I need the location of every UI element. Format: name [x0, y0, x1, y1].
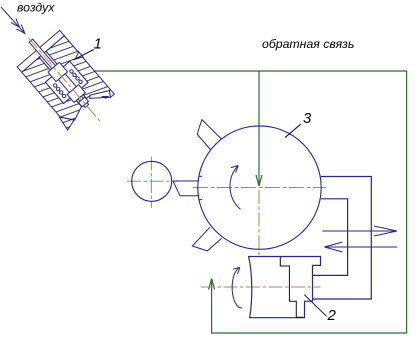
flow arrow right: [322, 226, 397, 236]
valve body upper hatched plate: [46, 36, 110, 106]
centerline horizontal of valve 2: [201, 286, 321, 288]
spool rod back: [78, 96, 89, 107]
rotor 3: [198, 126, 321, 249]
hub stubs on rotor: [198, 175, 202, 177]
valve body lower hatched plate: [22, 57, 85, 125]
spool rod front: [29, 39, 55, 69]
node inlet air arrow: [1, 7, 25, 33]
leader for label 2: [304, 295, 326, 317]
foot wedge: [58, 111, 77, 130]
leader for label 3: [285, 124, 301, 138]
green arrowhead down: [256, 175, 262, 186]
front cover plate: [17, 30, 64, 72]
rotation arrow at valve 2: [232, 267, 242, 308]
channel end arrow: [101, 92, 110, 100]
svg-text:обратная связь: обратная связь: [262, 37, 354, 51]
centerline horizontal of rotor 3: [193, 187, 326, 189]
leader for label 1: [73, 50, 93, 60]
rod end block: [78, 97, 88, 107]
bore back: [72, 90, 86, 104]
spring chamber: [45, 61, 88, 103]
spool stem: [58, 74, 76, 93]
valve 2 inner plunger (black): [280, 257, 303, 317]
rotation arrow inside rotor: [230, 166, 241, 210]
centerline vertical of rotor 3: [258, 190, 260, 256]
corner tip: [107, 90, 115, 98]
vane lower-left: [192, 227, 221, 251]
outlet channel wedge: [88, 84, 113, 108]
vane upper-left: [197, 120, 221, 150]
bore front: [39, 51, 61, 74]
top port notch: [73, 52, 83, 62]
svg-text:1: 1: [94, 36, 102, 53]
svg-text:воздух: воздух: [17, 1, 55, 15]
green arrowhead up: [209, 279, 215, 290]
flow arrow left: [324, 242, 397, 252]
shaft to pulley: [173, 176, 202, 199]
valve 2 outer profile: [249, 257, 321, 318]
green branch to rotor center: [258, 71, 260, 186]
feedback loop green: [95, 71, 407, 333]
spring upper coils: [69, 69, 83, 84]
pipe lower: rotor to inner column: [313, 199, 348, 276]
pipe upper: rotor to right column: [313, 177, 372, 300]
spool land left: [48, 62, 68, 81]
valve assembly 1 (rotated group): [5, 19, 122, 142]
spring lower coils: [53, 83, 67, 98]
spool land right: [67, 85, 85, 103]
pulley circle: [132, 161, 172, 201]
centerline cross small pulley: [127, 180, 179, 182]
svg-text:3: 3: [303, 110, 312, 127]
svg-text:2: 2: [327, 307, 337, 324]
axis centerline of valve 1: [28, 38, 100, 122]
